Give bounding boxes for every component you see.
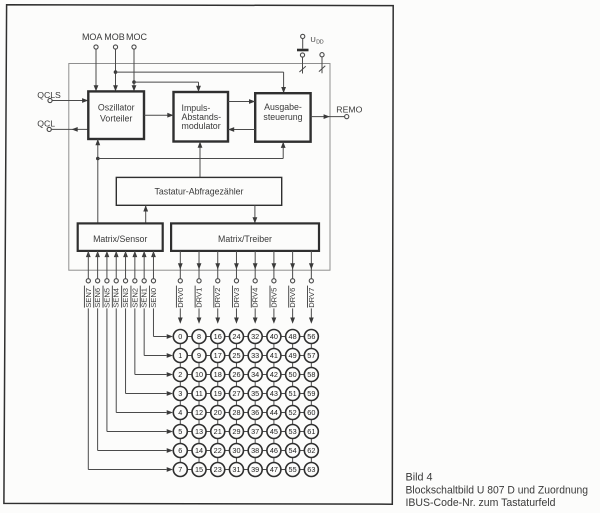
- svg-text:SEN4: SEN4: [112, 288, 121, 308]
- wire MOB arrow: [113, 85, 118, 91]
- svg-text:5: 5: [178, 427, 182, 436]
- svg-text:9: 9: [197, 351, 201, 360]
- wire key column 0 bus: [179, 337, 181, 470]
- label DRV4 (overline): [250, 286, 252, 308]
- key 57: [304, 349, 318, 363]
- key 26: [229, 368, 243, 382]
- key 60: [304, 406, 318, 420]
- pin DRV4: [253, 279, 257, 283]
- key 58: [304, 368, 318, 382]
- key 52: [286, 406, 300, 420]
- svg-text:MOB: MOB: [104, 32, 125, 42]
- svg-text:SEN7: SEN7: [84, 288, 93, 308]
- svg-text:DD: DD: [316, 40, 324, 46]
- wire SEN3 into Matrix/Sensor: [125, 257, 127, 279]
- wire DRV6 from Matrix/Treiber: [292, 251, 294, 279]
- label SEN4 (overline): [111, 286, 113, 308]
- key 21: [211, 425, 225, 439]
- svg-text:7: 7: [178, 465, 182, 474]
- key 16: [211, 330, 225, 344]
- svg-text:6: 6: [178, 446, 182, 455]
- key 3: [173, 387, 187, 401]
- key 13: [192, 425, 206, 439]
- key 20: [211, 406, 225, 420]
- key 50: [286, 368, 300, 382]
- svg-text:48: 48: [289, 332, 297, 341]
- svg-text:U: U: [310, 35, 315, 44]
- key 18: [211, 368, 225, 382]
- wire MOC to Impuls-Abstands-modulator: [134, 81, 199, 83]
- svg-text:49: 49: [289, 351, 297, 360]
- key 25: [229, 349, 243, 363]
- key 49: [286, 349, 300, 363]
- svg-text:Tastatur-Abfragezähler: Tastatur-Abfragezähler: [155, 187, 244, 197]
- svg-text:DRV0: DRV0: [176, 288, 185, 308]
- wire DRV5 from Matrix/Treiber: [273, 251, 275, 279]
- svg-text:steuerung: steuerung: [263, 112, 302, 122]
- key 15: [192, 463, 206, 477]
- svg-text:45: 45: [270, 427, 278, 436]
- svg-text:38: 38: [251, 446, 259, 455]
- wire SEN4 into Matrix/Sensor: [115, 257, 117, 279]
- svg-text:Bild 4: Bild 4: [406, 471, 433, 483]
- pin DRV0: [178, 279, 182, 283]
- pin SEN1: [142, 279, 146, 283]
- key 7: [173, 463, 187, 477]
- svg-text:SEN2: SEN2: [130, 288, 139, 308]
- wire SEN7 to key row 7: [87, 308, 89, 469]
- key 32: [248, 330, 262, 344]
- wire key row 4 bus: [174, 412, 311, 414]
- wire MOB to Ausgabesteuerung: [116, 71, 284, 73]
- wire Impuls to Ausgabe: [228, 101, 255, 103]
- wire key row 6 bus: [174, 450, 311, 452]
- wire SEN2 into Matrix/Sensor: [134, 257, 136, 279]
- pin SEN3: [123, 279, 127, 283]
- wire Tastatur to Matrix/Treiber: [254, 205, 256, 223]
- svg-text:16: 16: [214, 332, 222, 341]
- pin REMO: [345, 115, 349, 119]
- svg-text:11: 11: [195, 389, 203, 398]
- pin DRV2: [216, 279, 220, 283]
- wire QCL from Oszillator: [51, 128, 88, 130]
- wire UDD to bar: [302, 39, 304, 49]
- pin UDD: [301, 34, 305, 38]
- svg-text:8: 8: [197, 332, 201, 341]
- svg-text:19: 19: [214, 389, 222, 398]
- key 12: [192, 406, 206, 420]
- svg-text:41: 41: [270, 351, 278, 360]
- svg-text:2: 2: [178, 370, 182, 379]
- svg-text:37: 37: [251, 427, 259, 436]
- pin DRV3: [234, 279, 238, 283]
- key 17: [211, 349, 225, 363]
- pin UDD-a below bar: [300, 53, 304, 57]
- key 42: [267, 368, 281, 382]
- svg-text:42: 42: [270, 370, 278, 379]
- key 8: [192, 330, 206, 344]
- svg-text:32: 32: [251, 332, 259, 341]
- svg-text:12: 12: [195, 408, 203, 417]
- wire key column 3 bus: [235, 337, 237, 470]
- svg-text:27: 27: [232, 389, 240, 398]
- key 36: [248, 406, 262, 420]
- svg-text:36: 36: [251, 408, 259, 417]
- wire DRV7 from Matrix/Treiber: [310, 251, 312, 279]
- key 14: [192, 444, 206, 458]
- block U1 Oszillator Vorteiler: [88, 91, 144, 139]
- key 34: [248, 368, 262, 382]
- svg-text:63: 63: [307, 465, 315, 474]
- key 27: [229, 387, 243, 401]
- wire key column 1 bus: [198, 337, 200, 470]
- svg-text:REMO: REMO: [336, 105, 362, 115]
- svg-text:35: 35: [251, 389, 259, 398]
- svg-text:31: 31: [232, 465, 240, 474]
- key 59: [304, 387, 318, 401]
- wire key row 2 bus: [174, 374, 311, 376]
- wire DRV5 to key column 5: [273, 308, 275, 317]
- pin DRV5: [272, 279, 276, 283]
- wire DRV4 from Matrix/Treiber: [254, 251, 256, 279]
- svg-text:25: 25: [232, 351, 240, 360]
- key 43: [267, 387, 281, 401]
- junction sensor branch: [96, 157, 100, 161]
- label DRV3 (overline): [232, 286, 234, 308]
- wire key row 5 bus: [174, 431, 311, 433]
- svg-text:1: 1: [178, 351, 182, 360]
- svg-text:DRV5: DRV5: [269, 288, 278, 308]
- svg-text:4: 4: [178, 408, 182, 417]
- wire DRV3 to key column 3: [235, 308, 237, 317]
- svg-text:54: 54: [289, 446, 297, 455]
- key 0: [173, 330, 187, 344]
- key 56: [304, 330, 318, 344]
- wire SEN2 to key row 2: [134, 308, 136, 374]
- label SEN7 (overline): [83, 286, 85, 308]
- svg-text:50: 50: [289, 370, 297, 379]
- key 46: [267, 444, 281, 458]
- key 2: [173, 368, 187, 382]
- label SEN5 (overline): [102, 286, 104, 308]
- pin SEN0: [151, 279, 155, 283]
- svg-text:59: 59: [307, 389, 315, 398]
- svg-text:DRV3: DRV3: [232, 288, 241, 308]
- label DRV0 (overline): [175, 286, 177, 308]
- svg-text:26: 26: [232, 370, 240, 379]
- label SEN1 (overline): [139, 286, 141, 308]
- wire SEN5 into Matrix/Sensor: [106, 257, 108, 279]
- svg-text:43: 43: [270, 389, 278, 398]
- svg-text:Blockschaltbild U 807 D und Zu: Blockschaltbild U 807 D und Zuordnung: [406, 484, 589, 496]
- label SEN3 (overline): [121, 286, 123, 308]
- pin DRV7: [309, 279, 313, 283]
- key 28: [229, 406, 243, 420]
- pin QCL: [47, 127, 51, 131]
- pin UDD-b: [320, 53, 324, 57]
- wire MOA arrow: [94, 85, 99, 91]
- wire SEN6 to key row 6: [97, 308, 99, 450]
- pin SEN7: [86, 279, 90, 283]
- key 5: [173, 425, 187, 439]
- wire DRV0 from Matrix/Treiber: [179, 251, 181, 279]
- pin MOA: [94, 45, 98, 49]
- wire Tastatur to Impuls bottom: [199, 142, 201, 178]
- key 11: [192, 387, 206, 401]
- block U3 Ausgabe-steuerung: [255, 93, 310, 142]
- svg-text:SEN5: SEN5: [102, 288, 111, 308]
- svg-text:46: 46: [270, 446, 278, 455]
- wire UDD-a into chip with slash: [302, 57, 304, 73]
- key 4: [173, 406, 187, 420]
- wire key column 2 bus: [217, 337, 219, 470]
- svg-text:SEN1: SEN1: [140, 288, 149, 308]
- pin SEN4: [114, 279, 118, 283]
- wire key column 6 bus: [292, 337, 294, 470]
- wire Oszillator to Impuls: [144, 114, 174, 116]
- key 61: [304, 425, 318, 439]
- wire key column 4 bus: [254, 337, 256, 470]
- svg-text:56: 56: [307, 332, 315, 341]
- wire DRV2 from Matrix/Treiber: [217, 251, 219, 279]
- svg-text:58: 58: [307, 370, 315, 379]
- key 23: [211, 463, 225, 477]
- svg-text:44: 44: [270, 408, 278, 417]
- svg-text:57: 57: [307, 351, 315, 360]
- pin DRV6: [291, 279, 295, 283]
- wire key row 0 bus: [174, 336, 311, 338]
- svg-text:33: 33: [251, 351, 259, 360]
- wire Ausgabe to Impuls: [228, 129, 255, 131]
- svg-text:39: 39: [251, 465, 259, 474]
- key 62: [304, 444, 318, 458]
- key 37: [248, 425, 262, 439]
- label DRV1 (overline): [194, 286, 196, 308]
- svg-text:17: 17: [214, 351, 222, 360]
- key 41: [267, 349, 281, 363]
- pin SEN2: [133, 279, 137, 283]
- svg-text:IBUS-Code-Nr. zum Tastaturfeld: IBUS-Code-Nr. zum Tastaturfeld: [406, 497, 556, 509]
- wire DRV3 from Matrix/Treiber: [235, 251, 237, 279]
- svg-text:30: 30: [232, 446, 240, 455]
- svg-text:QCLS: QCLS: [37, 90, 61, 100]
- label DRV7 (overline): [306, 286, 308, 308]
- wire Matrix/Sensor to Tastatur: [145, 205, 147, 223]
- key 30: [229, 444, 243, 458]
- svg-text:52: 52: [289, 408, 297, 417]
- key 10: [192, 368, 206, 382]
- key 45: [267, 425, 281, 439]
- wire SEN0 to key row 0: [152, 308, 154, 336]
- pin SEN6: [96, 279, 100, 283]
- key 29: [229, 425, 243, 439]
- key 6: [173, 444, 187, 458]
- label DRV6 (overline): [288, 286, 290, 308]
- svg-text:24: 24: [232, 332, 240, 341]
- svg-text:Vorteiler: Vorteiler: [100, 114, 132, 124]
- svg-text:Ausgabe-: Ausgabe-: [264, 102, 302, 112]
- label SEN6 (overline): [93, 286, 95, 308]
- wire key column 5 bus: [273, 337, 275, 470]
- svg-text:QCL: QCL: [37, 119, 55, 129]
- svg-text:DRV1: DRV1: [195, 288, 204, 308]
- key 53: [286, 425, 300, 439]
- junction MOB branch: [114, 70, 118, 74]
- svg-text:SEN0: SEN0: [149, 288, 158, 308]
- key 33: [248, 349, 262, 363]
- wire SEN6 into Matrix/Sensor: [97, 257, 99, 279]
- wire key row 7 bus: [174, 469, 311, 471]
- outer frame: [4, 5, 393, 504]
- svg-text:40: 40: [270, 332, 278, 341]
- svg-text:51: 51: [289, 389, 297, 398]
- svg-text:60: 60: [307, 408, 315, 417]
- key 47: [267, 463, 281, 477]
- wire SEN1 to key row 1: [143, 308, 145, 355]
- wire SEN4 to key row 4: [115, 308, 117, 412]
- wire key column 7 bus: [310, 337, 312, 470]
- wire DRV7 to key column 7: [310, 308, 312, 317]
- block U2 Impuls-Abstands-modulator: [174, 92, 229, 142]
- wire DRV1 from Matrix/Treiber: [198, 251, 200, 279]
- svg-text:Matrix/Sensor: Matrix/Sensor: [93, 234, 147, 244]
- key 22: [211, 444, 225, 458]
- wire DRV2 to key column 2: [217, 308, 219, 317]
- key 51: [286, 387, 300, 401]
- wire SEN1 into Matrix/Sensor: [143, 257, 145, 279]
- wire SEN7 into Matrix/Sensor: [87, 257, 89, 279]
- wire REMO out: [311, 116, 345, 118]
- svg-text:23: 23: [214, 465, 222, 474]
- label SEN0 (overline): [149, 286, 151, 308]
- label DRV5 (overline): [269, 286, 271, 308]
- wire Matrix/Sensor to Oszillator: [97, 139, 99, 223]
- key 19: [211, 387, 225, 401]
- pin SEN5: [105, 279, 109, 283]
- label DRV2 (overline): [213, 286, 215, 308]
- wire QCLS to Oszillator: [52, 100, 88, 102]
- block U4 Tastatur-Abfragezaehler: [116, 177, 281, 205]
- wire SEN0 into Matrix/Sensor: [152, 257, 154, 279]
- key 55: [286, 463, 300, 477]
- svg-text:13: 13: [195, 427, 203, 436]
- wire SEN3 to key row 3: [125, 308, 127, 393]
- key 44: [267, 406, 281, 420]
- svg-text:61: 61: [307, 427, 315, 436]
- svg-text:28: 28: [232, 408, 240, 417]
- wire UDD-b into chip with slash: [321, 57, 323, 73]
- pin QCLS: [48, 98, 52, 102]
- svg-text:Matrix/Treiber: Matrix/Treiber: [218, 234, 272, 244]
- key 48: [286, 330, 300, 344]
- svg-text:10: 10: [195, 370, 203, 379]
- wire MOC arrow: [132, 85, 137, 91]
- key 38: [248, 444, 262, 458]
- svg-text:20: 20: [214, 408, 222, 417]
- key 40: [267, 330, 281, 344]
- pin MOC: [132, 45, 136, 49]
- svg-text:21: 21: [214, 427, 222, 436]
- wire key row 1 bus: [174, 355, 311, 357]
- key 24: [229, 330, 243, 344]
- svg-text:14: 14: [195, 446, 203, 455]
- svg-text:29: 29: [232, 427, 240, 436]
- svg-text:62: 62: [307, 446, 315, 455]
- svg-text:MOC: MOC: [126, 32, 147, 42]
- wire DRV1 to key column 1: [198, 308, 200, 317]
- svg-text:0: 0: [178, 332, 182, 341]
- wire key row 3 bus: [174, 393, 311, 395]
- svg-text:DRV2: DRV2: [213, 288, 222, 308]
- svg-text:47: 47: [270, 465, 278, 474]
- svg-text:DRV7: DRV7: [307, 288, 316, 308]
- key 9: [192, 349, 206, 363]
- pin DRV1: [197, 279, 201, 283]
- svg-text:DRV4: DRV4: [251, 288, 260, 308]
- junction MOC branch: [132, 80, 136, 84]
- wire DRV0 to key column 0: [179, 308, 181, 317]
- svg-text:SEN3: SEN3: [121, 288, 130, 308]
- svg-text:15: 15: [195, 465, 203, 474]
- IC boundary (chip outline): [69, 64, 330, 271]
- svg-text:18: 18: [214, 370, 222, 379]
- svg-text:55: 55: [289, 465, 297, 474]
- key 63: [304, 463, 318, 477]
- block U6 Matrix/Treiber: [171, 223, 319, 251]
- svg-text:modulator: modulator: [182, 121, 221, 131]
- key 1: [173, 349, 187, 363]
- wire sensor branch to Ausgabe bottom: [98, 158, 283, 160]
- wire DRV4 to key column 4: [254, 308, 256, 317]
- svg-text:DRV6: DRV6: [288, 288, 297, 308]
- label SEN2 (overline): [130, 286, 132, 308]
- svg-text:34: 34: [251, 370, 259, 379]
- svg-text:22: 22: [214, 446, 222, 455]
- block U5 Matrix/Sensor: [78, 223, 163, 251]
- key 54: [286, 444, 300, 458]
- key 35: [248, 387, 262, 401]
- key 31: [229, 463, 243, 477]
- supply bar: [297, 49, 309, 52]
- wire SEN5 to key row 5: [106, 308, 108, 431]
- pin MOB: [113, 45, 117, 49]
- svg-text:Oszillator: Oszillator: [98, 103, 135, 113]
- wire DRV6 to key column 6: [292, 308, 294, 317]
- svg-text:MOA: MOA: [82, 32, 103, 42]
- svg-text:53: 53: [289, 427, 297, 436]
- svg-text:SEN6: SEN6: [93, 288, 102, 308]
- key 39: [248, 463, 262, 477]
- svg-text:3: 3: [178, 389, 182, 398]
